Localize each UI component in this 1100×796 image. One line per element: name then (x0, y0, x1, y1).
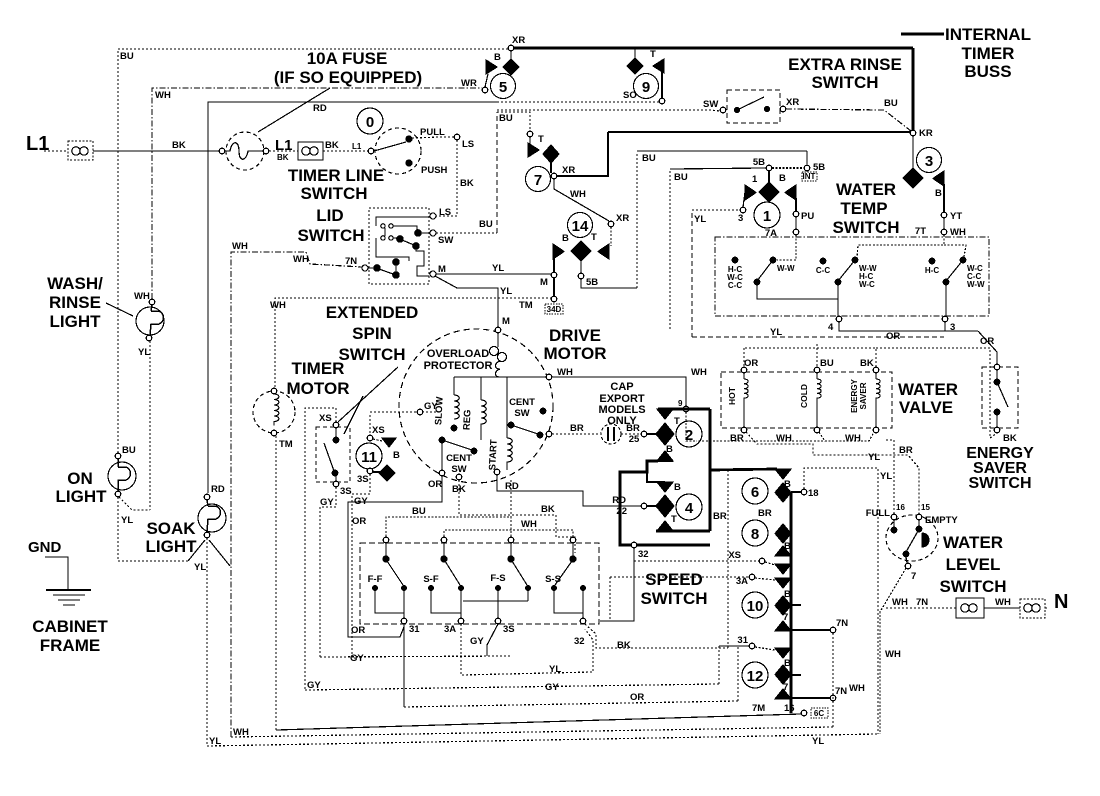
timer contact diamond 2 (656, 423, 674, 445)
svg-text:YL: YL (492, 263, 504, 274)
wash/rinse light lamp (136, 305, 164, 341)
ground symbol cabinet frame (46, 590, 91, 605)
svg-text:3S: 3S (357, 474, 369, 485)
label B (784, 589, 791, 600)
wire to N (1045, 607, 1049, 609)
node XS2 (367, 435, 373, 441)
timer contact diamond 9 (627, 58, 643, 74)
label LS (462, 139, 474, 150)
node TM bottom (271, 430, 277, 436)
wire BU feed from motor (510, 480, 512, 517)
label WH (232, 241, 357, 267)
svg-text:WR: WR (461, 78, 477, 89)
connector P3 (956, 598, 984, 618)
label 18 (808, 488, 819, 499)
label 7A (765, 228, 777, 239)
node M (551, 272, 557, 278)
svg-text:SWITCH: SWITCH (300, 184, 367, 203)
label 7 (783, 612, 788, 623)
timer interval 8 (742, 520, 768, 546)
labels 5B 5B (753, 157, 825, 173)
svg-text:PULL: PULL (420, 127, 445, 138)
label ENERGY SAVER SWITCH (966, 445, 1034, 492)
node WH motor (546, 374, 552, 380)
svg-text:INTERNAL: INTERNAL (945, 25, 1031, 44)
timer contact triangle mid-down (657, 482, 673, 492)
wire 3A corner (609, 577, 611, 621)
svg-text:BUSS: BUSS (964, 62, 1011, 81)
wire node to triangle (373, 439, 382, 441)
XS switch contacts (324, 428, 339, 481)
label YL / M (500, 286, 512, 327)
svg-text:B: B (393, 450, 400, 461)
leader wash/rinse light (106, 303, 133, 316)
wire 7T feed into pivots 2 and 3 (857, 235, 944, 258)
svg-text:5: 5 (499, 79, 507, 96)
label RD (313, 103, 327, 114)
svg-text:9: 9 (678, 399, 683, 408)
wire BU top link (386, 517, 511, 540)
temp switch arm 2 (835, 257, 877, 289)
label BK (452, 484, 466, 495)
speed arm 1 (383, 537, 403, 585)
label M (540, 277, 548, 288)
svg-text:18: 18 (808, 488, 819, 499)
wire node to triangle (755, 647, 775, 650)
wire thick to 7N lower (791, 697, 830, 699)
label OR (630, 692, 644, 703)
wire BK down to lid switch LS (436, 140, 457, 216)
wire capacitor to node (621, 433, 641, 435)
label GY (354, 496, 368, 507)
svg-text:XS: XS (319, 413, 332, 424)
node M motor top (495, 327, 501, 333)
timer contact triangle 3 (933, 171, 944, 186)
wire YL into FULL (886, 440, 894, 514)
extended spin switch box (316, 427, 350, 482)
svg-text:22: 22 (616, 506, 627, 517)
svg-text:14: 14 (572, 218, 589, 235)
timer contact diamond 14 (571, 241, 591, 261)
svg-text:16: 16 (784, 703, 795, 714)
svg-text:WH: WH (232, 241, 248, 252)
wire YL M to cluster14 M node (436, 273, 551, 275)
valve coil COLD (799, 373, 821, 427)
label 3S (340, 486, 352, 497)
thick feed to triangle 6 (710, 469, 777, 470)
node 5B (578, 273, 584, 279)
svg-text:CAP: CAP (610, 381, 633, 393)
svg-text:SAVER: SAVER (859, 382, 868, 409)
svg-text:LID: LID (316, 206, 343, 225)
node XR top (508, 45, 514, 51)
svg-text:LIGHT: LIGHT (56, 487, 108, 506)
label 5B (586, 277, 598, 288)
svg-text:WH: WH (521, 519, 537, 530)
label PULL / PUSH (420, 127, 448, 176)
svg-text:TM: TM (519, 300, 533, 311)
svg-text:BU: BU (884, 98, 898, 109)
label WR (461, 78, 477, 89)
label WH (691, 367, 707, 378)
svg-text:WH: WH (950, 227, 966, 238)
connector P2 (298, 142, 323, 160)
svg-text:OR: OR (980, 336, 994, 347)
svg-text:RD: RD (505, 481, 519, 492)
node bottom energy saver (994, 427, 1000, 433)
svg-text:MOTOR: MOTOR (287, 379, 350, 398)
label BU (674, 172, 688, 183)
label ON LIGHT (56, 469, 108, 506)
temp switch arm 3 (943, 257, 985, 289)
wire YL soak return rail (118, 560, 188, 562)
wire XS into column (634, 560, 759, 562)
wire XR2 to triangle 14 (610, 227, 612, 246)
label WH (155, 90, 171, 101)
temp switch arm 1 W-W (754, 257, 795, 285)
svg-text:GY: GY (307, 680, 321, 691)
svg-text:BU: BU (642, 153, 656, 164)
label T (538, 134, 544, 145)
labels 7T WH (915, 226, 966, 238)
label WH (270, 300, 533, 311)
svg-text:3S: 3S (503, 624, 515, 635)
label WATER VALVE (898, 380, 958, 417)
svg-text:N: N (1054, 591, 1068, 613)
node BR 25 (641, 431, 647, 437)
wire diamond 10 stub (791, 604, 801, 606)
svg-text:YL: YL (880, 471, 892, 482)
svg-text:CENT: CENT (446, 453, 472, 464)
svg-text:BU: BU (120, 51, 134, 62)
svg-text:BR: BR (899, 445, 913, 456)
svg-text:7N: 7N (836, 618, 848, 629)
wire triangle 9 to SO node (thick) (661, 72, 663, 99)
label OVERLOAD PROTECTOR (424, 348, 493, 372)
label LID SWITCH (297, 206, 364, 245)
svg-text:7T: 7T (915, 226, 926, 237)
speed arm 3 (508, 537, 527, 585)
labels 1 B (752, 173, 786, 185)
svg-text:11: 11 (361, 449, 377, 466)
svg-text:WH: WH (233, 727, 249, 738)
label OR (980, 336, 994, 347)
svg-text:SPIN: SPIN (352, 324, 392, 343)
timer contact triangle mid-up (657, 451, 673, 461)
node 4 (836, 316, 842, 322)
water level switch circle (886, 515, 938, 561)
svg-text:32: 32 (638, 549, 649, 560)
wire YL rail (207, 734, 878, 746)
wire 32 BK jog (585, 624, 728, 648)
timer contact triangle 6 (775, 469, 791, 479)
svg-text:BK: BK (172, 140, 186, 151)
svg-text:TIMER: TIMER (292, 359, 345, 378)
wire OR joining 4 and 3 (839, 322, 978, 331)
node SW (720, 107, 726, 113)
node RD soak light (204, 494, 210, 500)
svg-text:SPEED: SPEED (645, 570, 703, 589)
wire BU valve riser (816, 344, 818, 367)
wire WH from node 7 down-left (880, 568, 906, 734)
node M lid (430, 271, 436, 277)
svg-text:XR: XR (562, 165, 575, 176)
wire heavy buss elbow down (554, 132, 608, 176)
timer contact diamond 10 (775, 596, 791, 615)
wire WH top link (444, 530, 573, 540)
label YT (950, 211, 962, 222)
svg-text:SWITCH: SWITCH (968, 475, 1031, 492)
connector P1 (L1 plug) (68, 141, 93, 160)
svg-text:EMPTY: EMPTY (925, 515, 958, 526)
node timer motor top (271, 388, 277, 394)
wire stub XR node to diamond 5 (510, 50, 512, 60)
svg-text:BK: BK (1003, 433, 1017, 444)
winding START (487, 377, 512, 471)
node LS lid (430, 213, 436, 219)
wire WH 7N rail to lid switch (231, 252, 362, 737)
timer interval 10 (742, 592, 768, 618)
svg-text:LIGHT: LIGHT (50, 312, 102, 331)
node 7T WH (941, 229, 947, 235)
svg-text:COLD: COLD (799, 384, 809, 408)
label BK (860, 358, 874, 369)
wire node to triangle (529, 137, 531, 146)
svg-text:YL: YL (194, 562, 206, 573)
svg-text:WH: WH (557, 367, 573, 378)
timer interval 9 (634, 74, 659, 99)
speed arm 2 (441, 537, 460, 585)
wire YL wash light down (149, 341, 151, 510)
label BU (120, 51, 134, 62)
connector P4 (1020, 599, 1045, 618)
svg-text:WH: WH (892, 597, 908, 608)
svg-text:W-W: W-W (967, 280, 985, 289)
label BK (617, 640, 631, 651)
node BR motor (546, 431, 552, 437)
node J (740, 207, 746, 213)
label 31 (737, 635, 748, 646)
label BK (172, 140, 186, 151)
node XS col (759, 558, 765, 564)
svg-text:WASH/: WASH/ (47, 274, 103, 293)
label 3S (357, 474, 369, 485)
labels YL YL (209, 736, 824, 747)
svg-text:BU: BU (499, 113, 513, 124)
thick block top edge (658, 408, 710, 411)
svg-text:F-F: F-F (368, 574, 383, 585)
wire 5B from diamond14 (580, 251, 582, 273)
wire arm2 down to node 4 (837, 285, 839, 316)
node T7 top (527, 131, 533, 137)
label B (393, 450, 400, 461)
wire YL dashed below temp switch (692, 336, 944, 338)
label KR (919, 128, 933, 139)
wire YL from ON light to wash return (119, 497, 150, 510)
node 7N lid (362, 265, 368, 271)
label B (494, 52, 501, 63)
svg-text:SW: SW (438, 235, 453, 246)
svg-text:YL: YL (121, 515, 133, 526)
svg-text:16: 16 (896, 503, 905, 512)
svg-text:BU: BU (122, 445, 136, 456)
timer motor circle (253, 391, 295, 433)
node FULL (891, 514, 897, 520)
svg-text:OR: OR (630, 692, 644, 703)
label CAP EXPORT MODELS ONLY (598, 381, 645, 427)
extra rinse switch box (727, 90, 780, 123)
label BU (122, 445, 136, 456)
label BK (460, 178, 474, 189)
svg-text:L1: L1 (26, 133, 49, 155)
label B (674, 482, 681, 493)
wire WH down to valve common (686, 412, 697, 441)
labels B T (562, 232, 597, 244)
svg-text:ON: ON (67, 469, 93, 488)
svg-text:BR: BR (570, 423, 584, 434)
centrifugal switch upper (508, 408, 546, 438)
svg-text:RD: RD (211, 484, 225, 495)
node XR out (780, 106, 786, 112)
label YL (880, 471, 892, 482)
svg-text:1: 1 (752, 174, 758, 185)
svg-text:XR: XR (616, 213, 629, 224)
wire 3S to GY rail (487, 624, 498, 656)
node EMPTY 15 (916, 514, 922, 520)
svg-text:KR: KR (919, 128, 933, 139)
wire node3 stub (944, 322, 946, 331)
wire triangle base bar (657, 460, 673, 462)
svg-text:T: T (591, 232, 597, 243)
wire L1 lead dotted (44, 150, 68, 152)
timer contact triangle 11 (382, 438, 396, 447)
labels 31 3A 3S 32 (409, 624, 585, 647)
svg-text:YT: YT (950, 211, 962, 222)
svg-text:SWITCH: SWITCH (939, 577, 1006, 596)
svg-text:YL: YL (209, 736, 221, 747)
timer interval 2 (676, 421, 702, 447)
node BU on light (115, 453, 121, 459)
label BK (541, 504, 555, 515)
node XR2 (608, 221, 614, 227)
node SW lid (430, 230, 436, 236)
svg-text:15: 15 (921, 503, 930, 512)
ref box 6C (811, 708, 828, 718)
wire WH between connectors (984, 607, 1020, 609)
label B (935, 188, 942, 199)
label M (438, 264, 446, 275)
speed contact wiring (375, 591, 583, 618)
svg-text:3: 3 (925, 153, 933, 170)
wire RD motor to contact 4 (497, 475, 641, 506)
wire WH diagonal from XR node down to XR2 (554, 179, 609, 221)
svg-text:PUSH: PUSH (421, 165, 448, 176)
node 7N lower (830, 695, 836, 701)
node 32 speed (580, 618, 586, 624)
svg-text:WH: WH (995, 597, 1011, 608)
label B (784, 541, 791, 552)
svg-text:34D: 34D (547, 305, 562, 314)
svg-text:10A FUSE: 10A FUSE (307, 49, 388, 68)
svg-text:TIMER LINE: TIMER LINE (288, 166, 384, 185)
label XR (786, 97, 799, 108)
label B (666, 444, 673, 455)
wire WH rail to WR node (152, 88, 482, 299)
svg-text:BK: BK (541, 504, 555, 515)
node GY (417, 409, 423, 415)
wire BK top to energy saver column (876, 348, 997, 438)
svg-text:YL: YL (549, 664, 561, 675)
timer contact triangle 14 left (553, 244, 564, 259)
node OR motor (439, 470, 445, 476)
wire stub buss to diamond 9 (634, 48, 636, 58)
wire XS node2 riser (369, 415, 371, 435)
wire triangle14 to M node (thick) (553, 258, 555, 273)
label GND (28, 539, 62, 556)
svg-text:XS: XS (728, 550, 741, 561)
label YL (194, 562, 206, 573)
svg-text:SW: SW (451, 464, 466, 475)
label RD (211, 484, 225, 495)
label 7 (783, 682, 788, 693)
wire GY rail (320, 656, 512, 657)
timer contact triangle 10 up (775, 621, 791, 631)
svg-text:BR: BR (730, 433, 744, 444)
wire 5B upper run (637, 151, 807, 164)
labels WH 7N (892, 597, 928, 608)
label 10A FUSE (IF SO EQUIPPED) (274, 49, 422, 87)
label TIMER LINE SWITCH (288, 166, 384, 203)
svg-text:7: 7 (911, 571, 916, 582)
node YT (941, 212, 947, 218)
capacitor (export models) (601, 424, 621, 444)
label SOAK LIGHT (146, 519, 198, 556)
wire BK connector to timer line switch (323, 150, 373, 152)
node RD 22 (641, 503, 647, 509)
label WH (557, 367, 573, 378)
svg-text:SWITCH: SWITCH (811, 73, 878, 92)
ON light lamp (108, 459, 136, 497)
wire GY from 3S cluster down (352, 474, 370, 656)
timer contact triangle 1 left (745, 185, 756, 200)
lid switch box (369, 208, 429, 284)
svg-text:WH: WH (776, 433, 792, 444)
ref box 34D (545, 304, 563, 314)
label L1 (26, 133, 49, 155)
timer interval 7 (526, 167, 551, 192)
node XR mid (551, 173, 557, 179)
wire 5B to diamond 1 (768, 170, 770, 183)
svg-text:GY: GY (350, 653, 364, 664)
label LS (439, 207, 451, 218)
svg-text:BU: BU (412, 506, 426, 517)
label XR (562, 165, 575, 176)
svg-text:WH: WH (155, 90, 171, 101)
wire node to diamond 4 (thick) (647, 505, 657, 507)
svg-text:WH: WH (270, 300, 286, 311)
svg-text:WH: WH (293, 254, 309, 265)
svg-text:LIGHT: LIGHT (146, 537, 198, 556)
energy saver contacts (994, 370, 1008, 427)
wire diamond 12 stub (791, 674, 801, 676)
wire M node down to TM node (thick) (553, 278, 555, 296)
label OR (744, 358, 758, 369)
svg-text:START: START (487, 439, 500, 471)
svg-text:4: 4 (685, 500, 694, 517)
label SPEED SWITCH (640, 570, 707, 608)
wire GY from 3S down (320, 487, 336, 657)
wire PU to 7A (795, 217, 797, 229)
